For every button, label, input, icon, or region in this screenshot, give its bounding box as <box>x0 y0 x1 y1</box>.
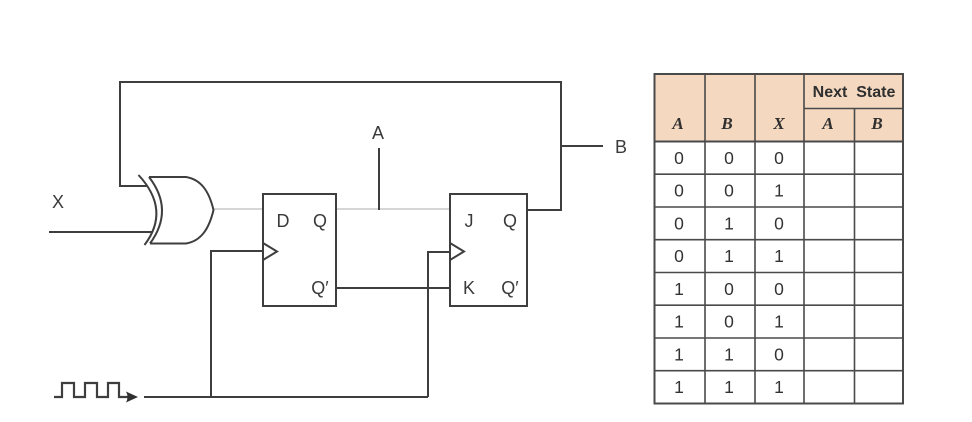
svg-text:X: X <box>52 192 64 212</box>
svg-text:0: 0 <box>724 181 734 201</box>
svg-text:1: 1 <box>724 377 734 397</box>
svg-text:0: 0 <box>774 279 784 299</box>
svg-text:A: A <box>372 123 384 143</box>
clock source square-wave symbol <box>54 383 128 397</box>
wire clock branch to JK flip-flop <box>428 252 450 397</box>
truth table header background <box>655 74 904 142</box>
svg-text:Q′: Q′ <box>311 278 329 298</box>
svg-text:1: 1 <box>774 377 784 397</box>
svg-text:D: D <box>277 211 290 231</box>
svg-text:1: 1 <box>724 246 734 266</box>
svg-text:Q: Q <box>313 211 327 231</box>
svg-text:1: 1 <box>674 344 684 364</box>
svg-text:1: 1 <box>774 246 784 266</box>
svg-text:1: 1 <box>674 279 684 299</box>
wire XOR output to D input <box>214 208 264 210</box>
svg-text:1: 1 <box>674 312 684 332</box>
svg-text:0: 0 <box>724 279 734 299</box>
wire D Q' output to K input <box>336 287 450 289</box>
svg-text:Q′: Q′ <box>501 278 519 298</box>
svg-text:B: B <box>870 114 882 133</box>
svg-text:1: 1 <box>724 344 734 364</box>
svg-text:B: B <box>615 137 627 157</box>
svg-text:0: 0 <box>774 344 784 364</box>
xor gate G1 <box>139 175 214 245</box>
svg-text:0: 0 <box>674 213 684 233</box>
wire node A vertical tap <box>378 148 380 210</box>
wire B output stub <box>561 145 603 147</box>
svg-text:A: A <box>671 114 683 133</box>
wire clock bottom bus <box>144 396 428 398</box>
svg-text:1: 1 <box>674 377 684 397</box>
svg-text:X: X <box>772 114 785 133</box>
svg-text:1: 1 <box>774 312 784 332</box>
wire D Q output to J input (node A net) <box>336 208 450 210</box>
svg-text:0: 0 <box>724 148 734 168</box>
svg-text:J: J <box>465 211 474 231</box>
svg-text:K: K <box>463 278 475 298</box>
svg-text:0: 0 <box>674 181 684 201</box>
clock arrow head <box>126 392 138 403</box>
svg-text:0: 0 <box>674 246 684 266</box>
svg-text:A: A <box>821 114 833 133</box>
truth table grid <box>655 74 904 404</box>
svg-text:0: 0 <box>774 148 784 168</box>
svg-text:0: 0 <box>774 213 784 233</box>
svg-text:1: 1 <box>724 213 734 233</box>
svg-text:B: B <box>720 114 732 133</box>
jk flip-flop U2 <box>450 194 527 306</box>
svg-text:Q: Q <box>503 211 517 231</box>
wire feedback from JK Q to XOR top input <box>120 82 561 210</box>
wire X input <box>49 231 152 233</box>
table data digits <box>674 148 784 397</box>
svg-text:0: 0 <box>674 148 684 168</box>
svg-text:Next State: Next State <box>813 84 896 101</box>
svg-text:0: 0 <box>724 312 734 332</box>
svg-text:1: 1 <box>774 181 784 201</box>
wire clock branch to D flip-flop <box>211 251 263 397</box>
d flip-flop U1 <box>263 194 336 306</box>
